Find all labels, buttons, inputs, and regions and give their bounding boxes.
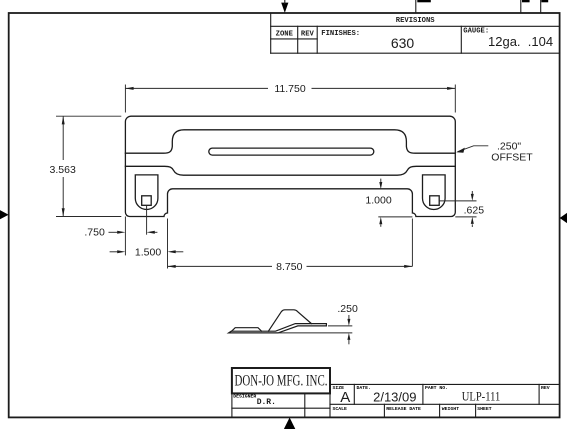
arrowheads 1.500	[117, 250, 125, 253]
dim 1.500 line	[110, 251, 118, 253]
offset area lower boundary	[125, 166, 455, 175]
title block don-jo box	[232, 368, 330, 393]
zone marker bottom	[284, 418, 295, 429]
dim 3.563 line	[62, 116, 64, 160]
svg-text:SCALE: SCALE	[333, 406, 348, 412]
dim 11.750 line	[125, 87, 268, 89]
svg-text:3.563: 3.563	[50, 164, 76, 176]
svg-text:WEIGHT: WEIGHT	[442, 406, 459, 412]
arrowheads 3.563	[62, 116, 65, 124]
svg-text:REV: REV	[301, 30, 315, 38]
svg-text:REV: REV	[541, 385, 550, 391]
side view dim extension lines	[328, 325, 352, 327]
svg-text:RELEASE DATE: RELEASE DATE	[386, 406, 421, 412]
dim 3.563 extension lines	[56, 115, 121, 117]
right hole outline	[423, 175, 446, 210]
svg-text:OFFSET: OFFSET	[491, 152, 533, 164]
dim .625 lines	[471, 191, 473, 194]
offset area upper boundary	[125, 130, 455, 153]
svg-text:1.500: 1.500	[135, 246, 161, 258]
title block lines	[231, 393, 233, 417]
notch left extension	[167, 219, 169, 269]
svg-text:.750: .750	[84, 226, 105, 238]
dim .750 line	[109, 231, 118, 233]
revisions table	[270, 13, 272, 53]
plate left edge extension	[124, 217, 126, 256]
svg-text:DATE.: DATE.	[357, 385, 371, 391]
top partial table cut-off row	[415, 0, 417, 13]
right hole square	[430, 196, 440, 206]
arrowhead offset leader	[456, 148, 465, 153]
svg-text:8.750: 8.750	[276, 261, 302, 273]
svg-text:D.R.: D.R.	[257, 398, 276, 407]
notch right extension	[411, 219, 413, 267]
side view pad	[232, 328, 262, 332]
dim 8.750 line	[168, 265, 273, 267]
hole leader line	[439, 200, 476, 202]
svg-text:ZONE: ZONE	[276, 30, 294, 38]
left hole outline	[135, 175, 158, 210]
plate outline	[125, 116, 455, 216]
svg-text:GAUGE:: GAUGE:	[463, 28, 489, 36]
side view strip	[229, 324, 327, 333]
dim .250 lines	[348, 315, 350, 319]
zone marker right	[560, 213, 567, 223]
svg-text:.625: .625	[464, 205, 485, 217]
arrowheads 11.750	[125, 87, 133, 90]
arrowheads 1.000	[379, 182, 382, 189]
side view hump	[268, 310, 311, 331]
svg-text:SHEET: SHEET	[477, 406, 492, 412]
dim 1.000 lines	[380, 179, 382, 183]
zone marker left	[0, 210, 9, 219]
center slot	[209, 148, 374, 155]
svg-text:ULP-111: ULP-111	[462, 389, 501, 404]
svg-text:A: A	[340, 389, 350, 406]
svg-text:FINISHES:: FINISHES:	[321, 30, 360, 38]
svg-text:DON-JO MFG. INC.: DON-JO MFG. INC.	[235, 373, 328, 390]
svg-text:PART NO.: PART NO.	[425, 385, 448, 391]
offset leader	[458, 146, 489, 152]
svg-text:12ga. .104: 12ga. .104	[488, 34, 553, 49]
svg-text:2/13/09: 2/13/09	[373, 390, 416, 405]
arrowheads .750	[117, 231, 125, 234]
svg-text:630: 630	[391, 35, 415, 51]
left hole center line	[146, 205, 148, 234]
svg-text:.250": .250"	[497, 140, 521, 152]
svg-text:.250: .250	[337, 303, 358, 315]
plate bottom extensions	[378, 216, 412, 218]
svg-text:DESIGNER: DESIGNER	[233, 393, 256, 399]
arrowheads 8.750	[168, 265, 176, 268]
left hole square	[142, 196, 152, 206]
svg-text:1.000: 1.000	[365, 195, 391, 207]
arrowheads .250	[347, 319, 350, 326]
svg-text:11.750: 11.750	[274, 83, 305, 95]
arrowheads .625	[471, 194, 474, 201]
svg-text:REVISIONS: REVISIONS	[396, 17, 436, 25]
dim 11.750 extension lines	[124, 85, 126, 113]
zone marker top	[281, 3, 288, 13]
